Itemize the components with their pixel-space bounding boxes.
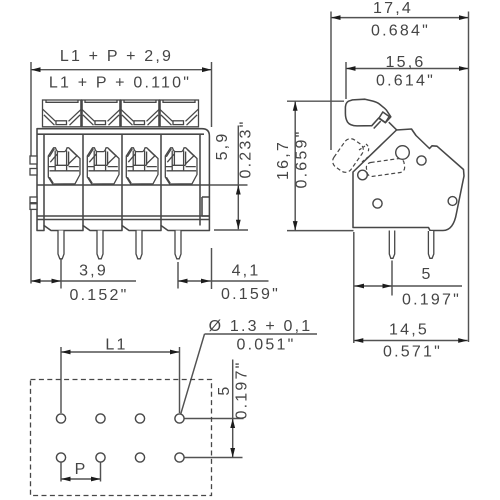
- side view: dashed clamp spring in open position: [366, 158, 406, 177]
- dimension L1 + P + 2,9 dimension line: [31, 69, 212, 71]
- dimension 16,7 top extension: [287, 100, 344, 102]
- pcb layout: dashed board outline: [31, 380, 212, 496]
- front view: clamp opening pole 1: [48, 148, 80, 184]
- pcb layout: drill hole bottom row 3: [135, 453, 144, 462]
- front view: clamp opening pole 4: [165, 148, 197, 184]
- svg-text:0.197": 0.197": [234, 361, 251, 420]
- svg-text:0.197": 0.197": [402, 292, 461, 309]
- dimension P dimension line: [61, 478, 101, 480]
- side view: lever (closed position): [345, 99, 390, 126]
- dimension 17,4 extension line left: [330, 12, 332, 151]
- side view: bottom left hole: [373, 199, 382, 208]
- front view: right side latch recess: [202, 197, 209, 216]
- side view: bottom right hole: [448, 197, 457, 206]
- svg-text:0.659": 0.659": [294, 130, 311, 189]
- svg-text:0.152": 0.152": [70, 287, 129, 304]
- hole row reference line bottom: [184, 457, 242, 459]
- front view: clamp opening pole 2: [87, 148, 119, 184]
- dimension 14,5 extension line left: [353, 232, 355, 343]
- leader line to hole diameter label: [181, 334, 317, 414]
- dimension 17,4 / 15,6 / 14,5 extension line right: [468, 12, 470, 343]
- dimension 5,9 top extension (ledge): [210, 184, 248, 186]
- front view: solder pin 3: [136, 231, 142, 259]
- svg-text:5,9: 5,9: [214, 132, 231, 161]
- svg-text:16,7: 16,7: [275, 140, 292, 180]
- pcb layout: drill hole top row 3: [135, 414, 144, 423]
- front view: solder pin 4: [175, 231, 181, 259]
- front view: body lower band lines: [37, 216, 209, 220]
- hole row reference line top: [184, 418, 243, 420]
- svg-text:0.159": 0.159": [221, 286, 280, 303]
- svg-text:0.614": 0.614": [376, 73, 435, 90]
- svg-text:0.051": 0.051": [237, 337, 296, 354]
- dimension 5 dimension line: [355, 285, 463, 287]
- svg-text:15,6: 15,6: [386, 54, 426, 71]
- dimension L1 + P + 2,9 extension line right: [211, 62, 213, 289]
- dimension P extension lines: [61, 463, 101, 482]
- svg-text:L1 + P + 2,9: L1 + P + 2,9: [60, 48, 173, 65]
- side view: small middle hole: [417, 156, 426, 165]
- svg-text:5: 5: [421, 266, 432, 283]
- side view: solder pin right: [428, 231, 433, 258]
- dimension 5,9 dimension line: [237, 126, 239, 230]
- front view: clamp opening pole 3: [126, 148, 158, 184]
- pcb layout: drill hole bottom row 4: [175, 453, 184, 462]
- dimension 5,9 bottom extension: [214, 229, 248, 231]
- dimension 4,1 dimension line: [178, 280, 269, 282]
- front view: body inner top line: [37, 133, 204, 135]
- svg-text:0.233": 0.233": [238, 120, 255, 179]
- dimension 3,9 pin extension line: [60, 260, 62, 289]
- arrowheads: [31, 67, 41, 72]
- front view: wire-release pusher block 3: [121, 100, 160, 127]
- dimension 14,5 dimension line: [354, 340, 468, 342]
- svg-text:5: 5: [216, 384, 233, 395]
- front view: wire-release pusher block 1: [43, 100, 82, 127]
- side view: lever tip square: [379, 112, 389, 123]
- pcb layout: drill hole top row 2: [96, 414, 105, 423]
- front view: left side tabs: [30, 156, 37, 209]
- svg-text:4,1: 4,1: [232, 263, 261, 280]
- pcb layout: drill hole bottom row 2: [96, 453, 105, 462]
- front view: pusher divider 1: [80, 101, 83, 127]
- front view: solder pin 2: [97, 231, 103, 259]
- svg-text:0.571": 0.571": [383, 344, 442, 361]
- svg-text:17,4: 17,4: [373, 0, 413, 17]
- pcb layout: drill hole bottom row 1: [56, 453, 65, 462]
- front view: terminal block body outline: [37, 129, 209, 231]
- dimension L1 dimension line: [61, 351, 180, 353]
- svg-text:3,9: 3,9: [79, 263, 108, 280]
- dimension 16,7 dimension line: [294, 101, 296, 230]
- svg-text:Ø 1.3 + 0,1: Ø 1.3 + 0,1: [209, 318, 313, 335]
- svg-text:L1: L1: [105, 337, 127, 354]
- dimension 16,7 bottom extension: [287, 230, 354, 232]
- svg-text:L1 + P + 0.110": L1 + P + 0.110": [49, 75, 191, 92]
- pcb layout: drill hole top row 4: [175, 414, 184, 423]
- side view: pusher channel lines: [374, 121, 397, 130]
- front view: pusher divider 3: [158, 101, 161, 127]
- front view: pusher divider 2: [119, 101, 122, 127]
- dimension 5 pin extension line: [391, 261, 393, 296]
- side view: dashed lever in open position: [330, 136, 366, 175]
- front view: wire-release pusher block 4: [160, 100, 199, 127]
- side view: dashed pusher tip marks: [359, 144, 369, 162]
- dimension 5 (hole pitch) dimension line: [232, 360, 234, 458]
- front view: pole divider lines: [44, 134, 200, 225]
- dimension L1 + P + 2,9 extension line left: [30, 62, 32, 284]
- svg-text:0.684": 0.684": [371, 23, 430, 40]
- svg-text:P: P: [75, 461, 88, 478]
- pcb layout: drill hole top row 1: [56, 414, 65, 423]
- side view: large pivot hole: [396, 146, 410, 160]
- side view: solder pin left: [389, 231, 394, 259]
- front view: wire-release pusher block 2: [82, 100, 121, 127]
- dimension 3,9 dimension line: [31, 280, 136, 282]
- side view: lower left hole: [358, 170, 368, 180]
- dimension 15,6 dimension line: [346, 68, 469, 70]
- svg-text:14,5: 14,5: [389, 322, 429, 339]
- side view: body outline: [353, 129, 464, 231]
- dimension 17,4 dimension line: [331, 17, 469, 19]
- dimension 4,1 pin extension line: [177, 262, 179, 289]
- dimension L1 extension lines: [61, 347, 180, 413]
- front view: body ledge line: [37, 184, 209, 186]
- front view: solder pin 1: [58, 231, 64, 259]
- dimension 15,6 extension line left: [345, 62, 347, 99]
